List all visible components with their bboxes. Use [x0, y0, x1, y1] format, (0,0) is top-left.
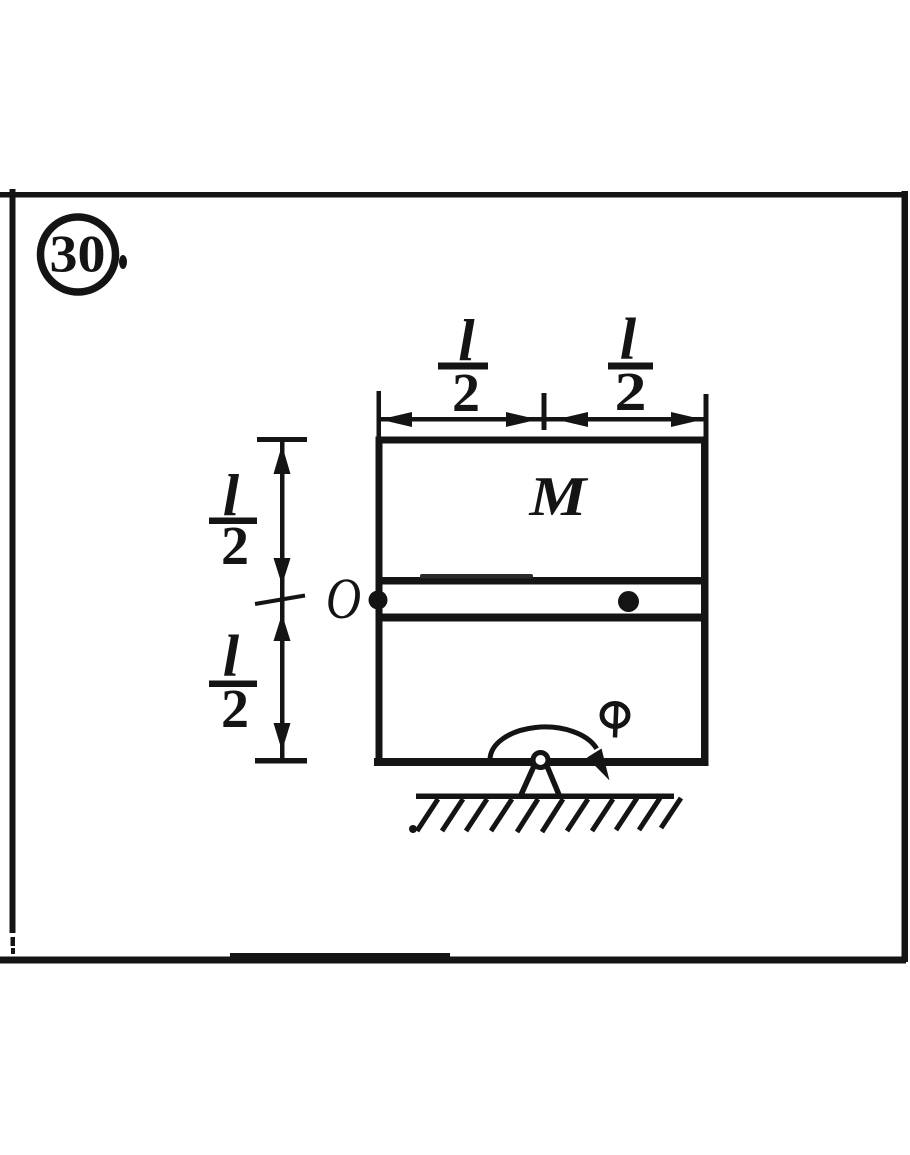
svg-text:30: 30	[50, 226, 106, 284]
outer frame left border	[10, 189, 16, 933]
left dim arrow above middle (points down)	[274, 558, 291, 585]
top dimension line	[379, 417, 706, 422]
ground line	[416, 794, 674, 800]
svg-text:M: M	[528, 466, 589, 528]
angle arc arrowhead	[587, 749, 610, 781]
svg-text:2: 2	[221, 515, 249, 576]
top dim arrow mid-left (points right)	[506, 412, 538, 427]
top dim: right extension line	[704, 394, 709, 437]
mass dot on slot	[618, 591, 639, 612]
square plate: top edge	[376, 437, 709, 444]
left dim arrow bottom (points down)	[274, 723, 291, 751]
slot lower line	[378, 614, 702, 622]
square plate: bottom edge	[374, 758, 709, 766]
ground hatch stub dot	[409, 825, 417, 833]
left dim arrow below middle (points up)	[274, 614, 291, 641]
svg-text:O: O	[326, 566, 361, 631]
left dim: top tick	[257, 437, 307, 442]
outer frame right border	[902, 191, 909, 962]
top dim arrow mid-right (points left)	[556, 412, 588, 427]
svg-text:2: 2	[452, 362, 480, 423]
left dim arrow top (points up)	[274, 445, 291, 474]
slot upper line	[378, 577, 703, 585]
outer frame top border	[0, 192, 908, 198]
problem number badge circle 30	[41, 217, 116, 292]
top dim: left extension line	[377, 391, 382, 437]
left dimension line	[280, 439, 285, 761]
top dim arrow right (points right)	[671, 412, 703, 427]
left dim: middle tick (slanted)	[255, 596, 305, 605]
top dim: middle tick	[542, 393, 547, 430]
label phi	[602, 702, 628, 738]
square plate: left edge	[376, 437, 383, 766]
left dim: bottom tick	[255, 758, 307, 764]
svg-text:2: 2	[615, 361, 647, 422]
outer frame bottom border	[0, 957, 906, 964]
pivot dot O on slot	[369, 591, 388, 610]
svg-text:2: 2	[221, 678, 249, 739]
ink speck right of badge	[119, 255, 127, 269]
pivot pin circle	[533, 753, 548, 768]
square plate: right edge	[701, 437, 709, 766]
top dim arrow left (points left)	[380, 412, 412, 427]
angle arc phi	[490, 727, 597, 760]
ground hatching	[417, 798, 681, 832]
pivot support triangle right leg	[547, 766, 560, 796]
pivot support triangle left leg	[521, 766, 535, 796]
